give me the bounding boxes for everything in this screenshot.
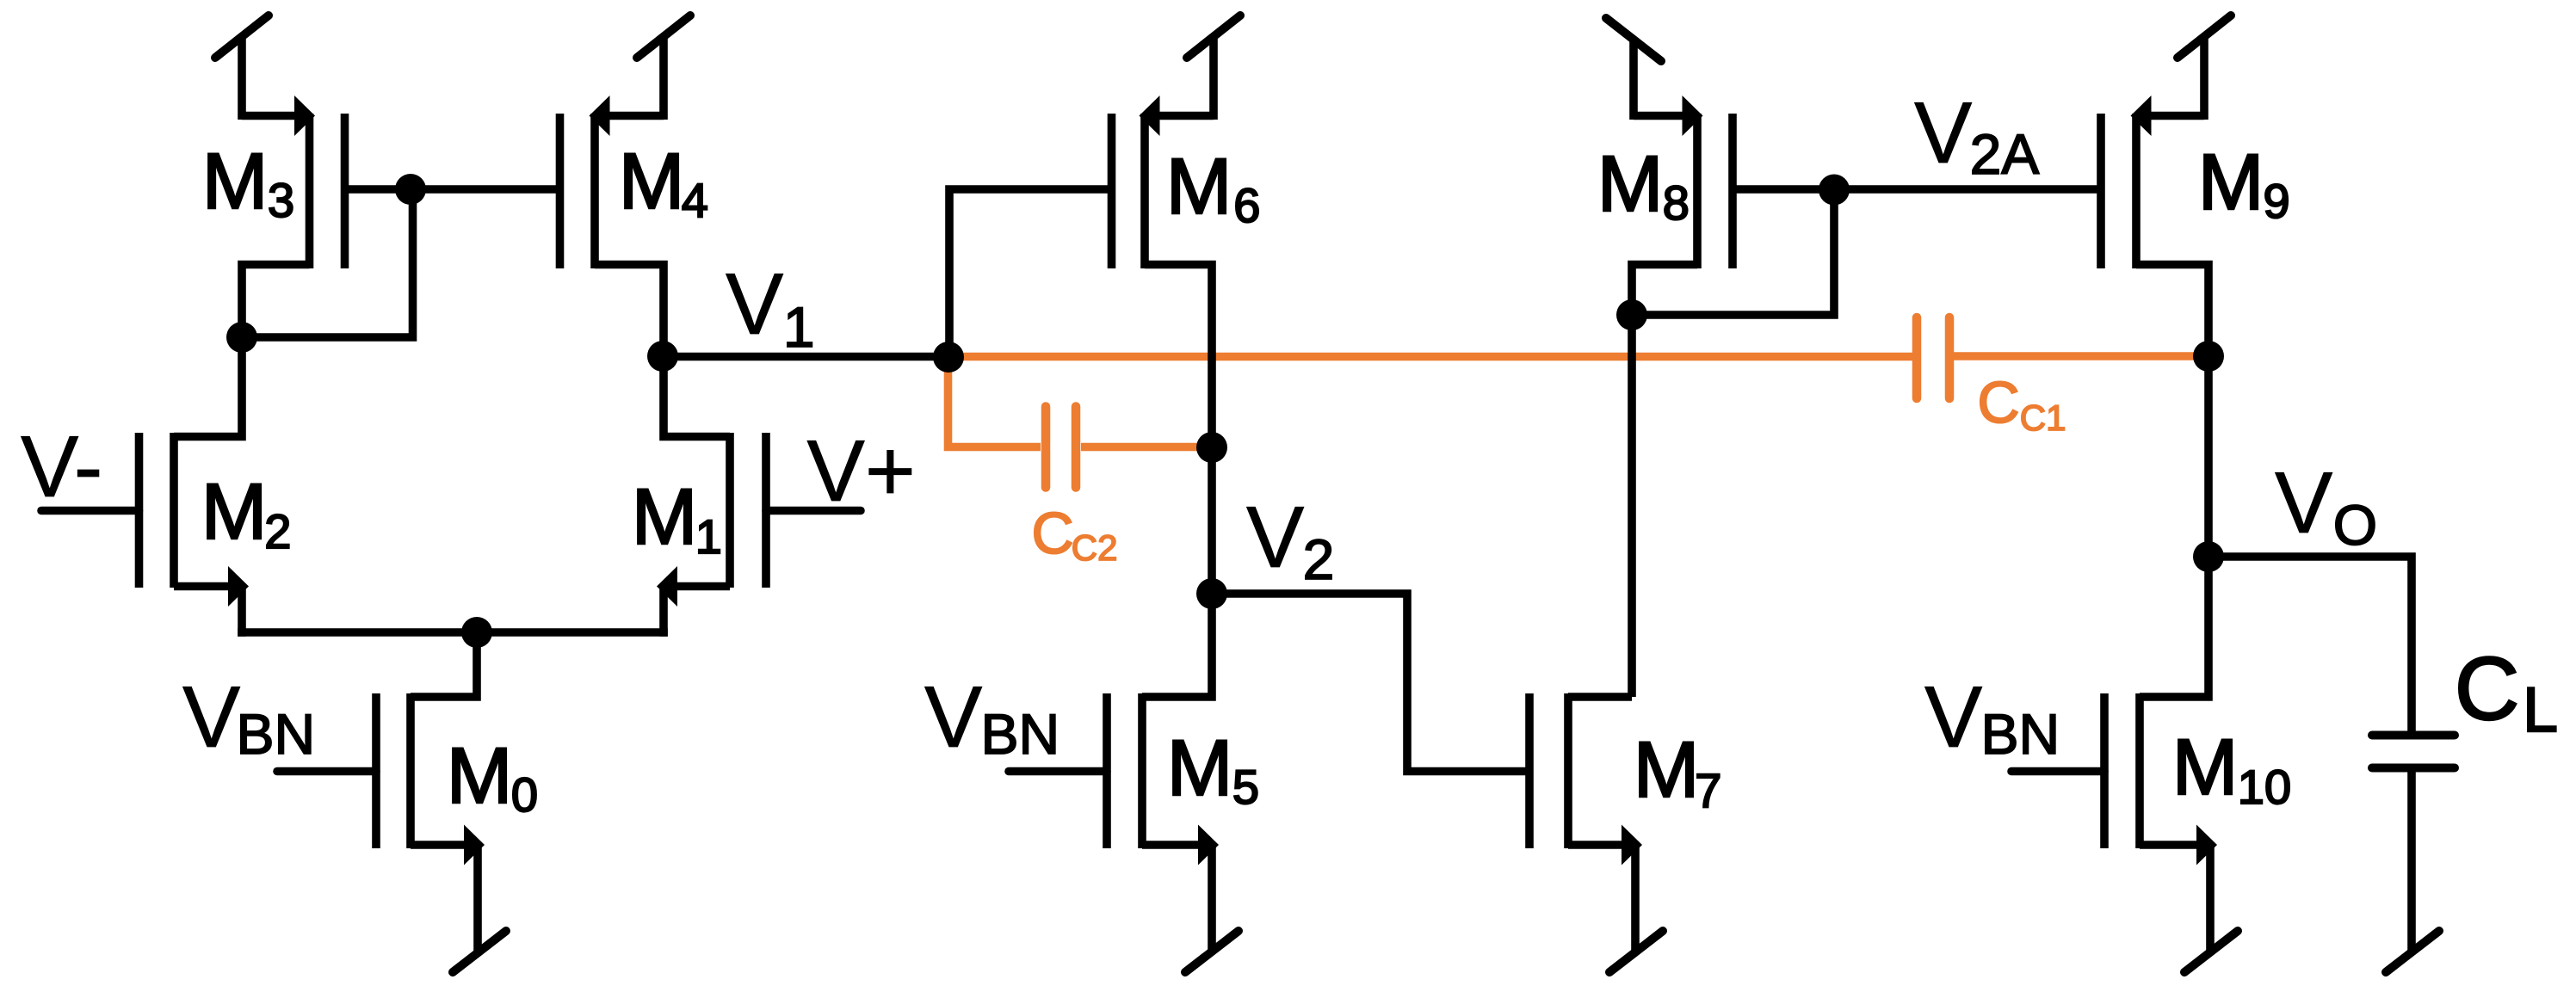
svg-text:7: 7 bbox=[1695, 763, 1721, 817]
wire V2 down to M5 drain bbox=[1142, 594, 1212, 697]
wire VO node to CL bbox=[2208, 557, 2412, 731]
power rail VDD symbol above M8 (mirrored) bbox=[1606, 18, 1661, 120]
svg-text:M: M bbox=[1166, 143, 1232, 231]
svg-text:9: 9 bbox=[2264, 174, 2290, 228]
transistor M6 (PMOS second stage) bbox=[1112, 95, 1214, 268]
svg-text:2: 2 bbox=[1303, 527, 1335, 591]
svg-text:M: M bbox=[1167, 724, 1233, 812]
wire M2 drain up to mirror node bbox=[174, 337, 242, 437]
wire M8 gate lead to node V2A bbox=[1733, 185, 1834, 194]
transistor M2 (NMOS input left) bbox=[139, 433, 175, 588]
wire M6 drain node down to node V2 bbox=[1208, 447, 1216, 594]
label VBN (M0) bbox=[182, 669, 315, 766]
wire M5 source with arrow to ground bbox=[1142, 825, 1219, 952]
label V2 bbox=[1246, 490, 1334, 591]
ground symbol below M10 bbox=[2184, 931, 2238, 972]
wire V1 node to CC1 (orange, long) bbox=[948, 353, 1912, 361]
label VBN (M10) bbox=[1924, 669, 2060, 766]
svg-text:1: 1 bbox=[695, 509, 722, 564]
node M3 drain mirror junction bbox=[226, 322, 257, 353]
transistor M4 (PMOS current mirror right) bbox=[560, 95, 664, 268]
wire tail rail bbox=[238, 628, 668, 637]
svg-text:V: V bbox=[182, 669, 240, 766]
svg-text:L: L bbox=[2523, 675, 2558, 745]
label VBN (M5) bbox=[924, 669, 1059, 766]
svg-text:2A: 2A bbox=[1970, 122, 2040, 186]
power rail VDD symbol above M4 bbox=[637, 15, 690, 120]
capacitor CC1 (orange) bbox=[1917, 317, 1949, 398]
wire VBN gate lead to M0 bbox=[277, 767, 376, 776]
svg-text:BN: BN bbox=[981, 702, 1060, 766]
wire V1 to CC2 (orange) bbox=[948, 356, 1041, 447]
label M5 bbox=[1167, 724, 1259, 814]
transistor M5 (NMOS second stage current source) bbox=[1107, 693, 1142, 848]
label M9 bbox=[2198, 139, 2290, 228]
svg-text:M: M bbox=[1597, 140, 1664, 228]
svg-text:M: M bbox=[202, 138, 269, 225]
capacitor CC2 (orange) bbox=[1046, 407, 1076, 488]
svg-text:V-: V- bbox=[21, 419, 102, 515]
transistor M8 (PMOS diode-connected) bbox=[1634, 95, 1733, 268]
svg-text:M: M bbox=[632, 473, 698, 561]
svg-text:4: 4 bbox=[682, 173, 708, 227]
transistor M0 (NMOS tail current source) bbox=[376, 693, 411, 848]
wire M1 drain up to node V1 bbox=[664, 356, 730, 437]
svg-text:C: C bbox=[1032, 501, 1074, 566]
label CL bbox=[2455, 639, 2558, 745]
label M8 bbox=[1597, 140, 1690, 230]
svg-text:V: V bbox=[1914, 85, 1972, 182]
label M3 bbox=[202, 138, 294, 227]
wire M3-M4 gate connection bbox=[345, 185, 560, 194]
label M0 bbox=[447, 732, 538, 822]
svg-text:V+: V+ bbox=[807, 423, 916, 520]
wire M8 gate down to drain (diode connection) bbox=[1632, 190, 1834, 316]
label M2 bbox=[201, 468, 292, 558]
svg-text:C: C bbox=[1978, 370, 2020, 435]
power rail VDD symbol above M3 bbox=[215, 15, 269, 120]
node tail junction bbox=[461, 617, 492, 648]
wire VBN gate lead to M5 bbox=[1009, 767, 1107, 776]
node VO bbox=[2193, 541, 2224, 572]
svg-text:M: M bbox=[447, 732, 513, 820]
wire V1 branch up to M6 gate lead bbox=[949, 189, 1112, 356]
label V1 bbox=[726, 256, 815, 359]
svg-text:C2: C2 bbox=[1072, 527, 1118, 568]
label M7 bbox=[1634, 726, 1722, 817]
node M9 drain / CC1 junction bbox=[2193, 341, 2224, 372]
node CC2 to M6 drain junction bbox=[1196, 432, 1227, 463]
label VO bbox=[2275, 455, 2377, 557]
wire CC1 to output node (orange) bbox=[1954, 352, 2208, 360]
transistor M7 (NMOS third stage) bbox=[1529, 693, 1568, 848]
label V- bbox=[21, 419, 102, 515]
svg-text:M: M bbox=[201, 468, 268, 556]
svg-text:V: V bbox=[726, 256, 783, 353]
node V2 bbox=[1196, 578, 1227, 609]
svg-text:M: M bbox=[619, 138, 685, 225]
node M8 drain junction bbox=[1616, 299, 1647, 330]
wire M7 source with arrow to ground bbox=[1568, 825, 1642, 952]
wire V2 to M7 gate bbox=[1212, 594, 1529, 772]
svg-text:8: 8 bbox=[1663, 176, 1690, 230]
svg-text:6: 6 bbox=[1233, 178, 1260, 232]
label V2A bbox=[1914, 85, 2039, 186]
wire tail node down to M0 drain bbox=[411, 632, 477, 697]
transistor M9 (PMOS output) bbox=[2101, 95, 2204, 268]
wire M9 drain down to output node bbox=[2136, 265, 2208, 357]
transistor M3 (PMOS current mirror left) bbox=[242, 95, 345, 268]
svg-text:10: 10 bbox=[2238, 760, 2291, 814]
label CC2 (orange) bbox=[1032, 501, 1118, 568]
wire CL to ground bbox=[2407, 772, 2416, 952]
svg-text:M: M bbox=[2198, 139, 2264, 226]
wire M4 drain down to node V1 bbox=[595, 265, 664, 357]
wire M1 source with arrow to tail bbox=[657, 566, 730, 637]
wire VBN gate lead to M10 bbox=[2011, 767, 2104, 776]
wire M8 drain node down to M7 drain bbox=[1628, 315, 1636, 697]
wire V- gate lead to M2 bbox=[41, 507, 139, 515]
wire gate node down to mirror node bbox=[242, 189, 413, 337]
ground symbol below CL bbox=[2386, 931, 2439, 972]
svg-text:3: 3 bbox=[268, 173, 294, 227]
power rail VDD symbol above M6 bbox=[1187, 15, 1240, 120]
transistor M10 (NMOS output current source) bbox=[2104, 693, 2140, 848]
wire M2 source with arrow to tail bbox=[174, 566, 249, 637]
wire M0 source with arrow to ground bbox=[411, 825, 485, 952]
label M1 bbox=[632, 473, 722, 564]
svg-text:O: O bbox=[2333, 493, 2377, 557]
svg-text:C1: C1 bbox=[2020, 397, 2066, 438]
wire M6 drain down through compensation crossing bbox=[1145, 265, 1212, 449]
svg-text:1: 1 bbox=[783, 295, 815, 359]
wire VO node down to M10 drain bbox=[2140, 557, 2208, 697]
svg-text:0: 0 bbox=[511, 767, 538, 822]
wire CC2 to M6 drain node (orange) bbox=[1081, 443, 1205, 452]
wire M1 gate lead under V+ bbox=[766, 507, 861, 515]
label CC1 (orange) bbox=[1978, 370, 2066, 438]
svg-text:BN: BN bbox=[1981, 702, 2060, 766]
node V1 at M4 drain bbox=[647, 341, 678, 372]
svg-text:2: 2 bbox=[264, 504, 291, 558]
svg-text:V: V bbox=[1246, 490, 1304, 586]
wire M10 source with arrow to ground bbox=[2140, 825, 2217, 952]
transistor M1 (NMOS input right) bbox=[730, 433, 766, 588]
svg-text:M: M bbox=[1634, 726, 1700, 814]
svg-text:5: 5 bbox=[1232, 760, 1259, 814]
wire M7 drain lead bbox=[1568, 693, 1632, 701]
node V1 branch junction bbox=[933, 342, 964, 373]
capacitor CL bbox=[2372, 736, 2455, 768]
wire M8 drain down to node bbox=[1632, 265, 1697, 316]
label M10 bbox=[2172, 724, 2291, 814]
node M8 gate junction bbox=[1819, 175, 1850, 206]
svg-text:C: C bbox=[2455, 639, 2519, 739]
svg-text:M: M bbox=[2172, 724, 2239, 811]
wire V2A to M9 gate bbox=[1834, 185, 2101, 194]
ground symbol below M0 bbox=[453, 931, 506, 972]
wire M3 drain to mirror node bbox=[242, 265, 310, 342]
svg-text:V: V bbox=[2275, 455, 2332, 551]
ground symbol below M5 bbox=[1185, 931, 1239, 972]
wire M9 drain node down to VO node bbox=[2204, 356, 2213, 557]
node M3/M4 gate junction bbox=[395, 174, 426, 205]
power rail VDD symbol above M9 bbox=[2178, 15, 2231, 120]
label M6 bbox=[1166, 143, 1261, 232]
ground symbol below M7 bbox=[1609, 931, 1663, 972]
svg-text:V: V bbox=[1924, 669, 1982, 766]
svg-text:BN: BN bbox=[237, 702, 316, 766]
wire V1 node to V1 branch bbox=[663, 353, 949, 361]
label M4 bbox=[619, 138, 708, 227]
svg-text:V: V bbox=[924, 669, 982, 766]
label V+ bbox=[807, 423, 916, 520]
